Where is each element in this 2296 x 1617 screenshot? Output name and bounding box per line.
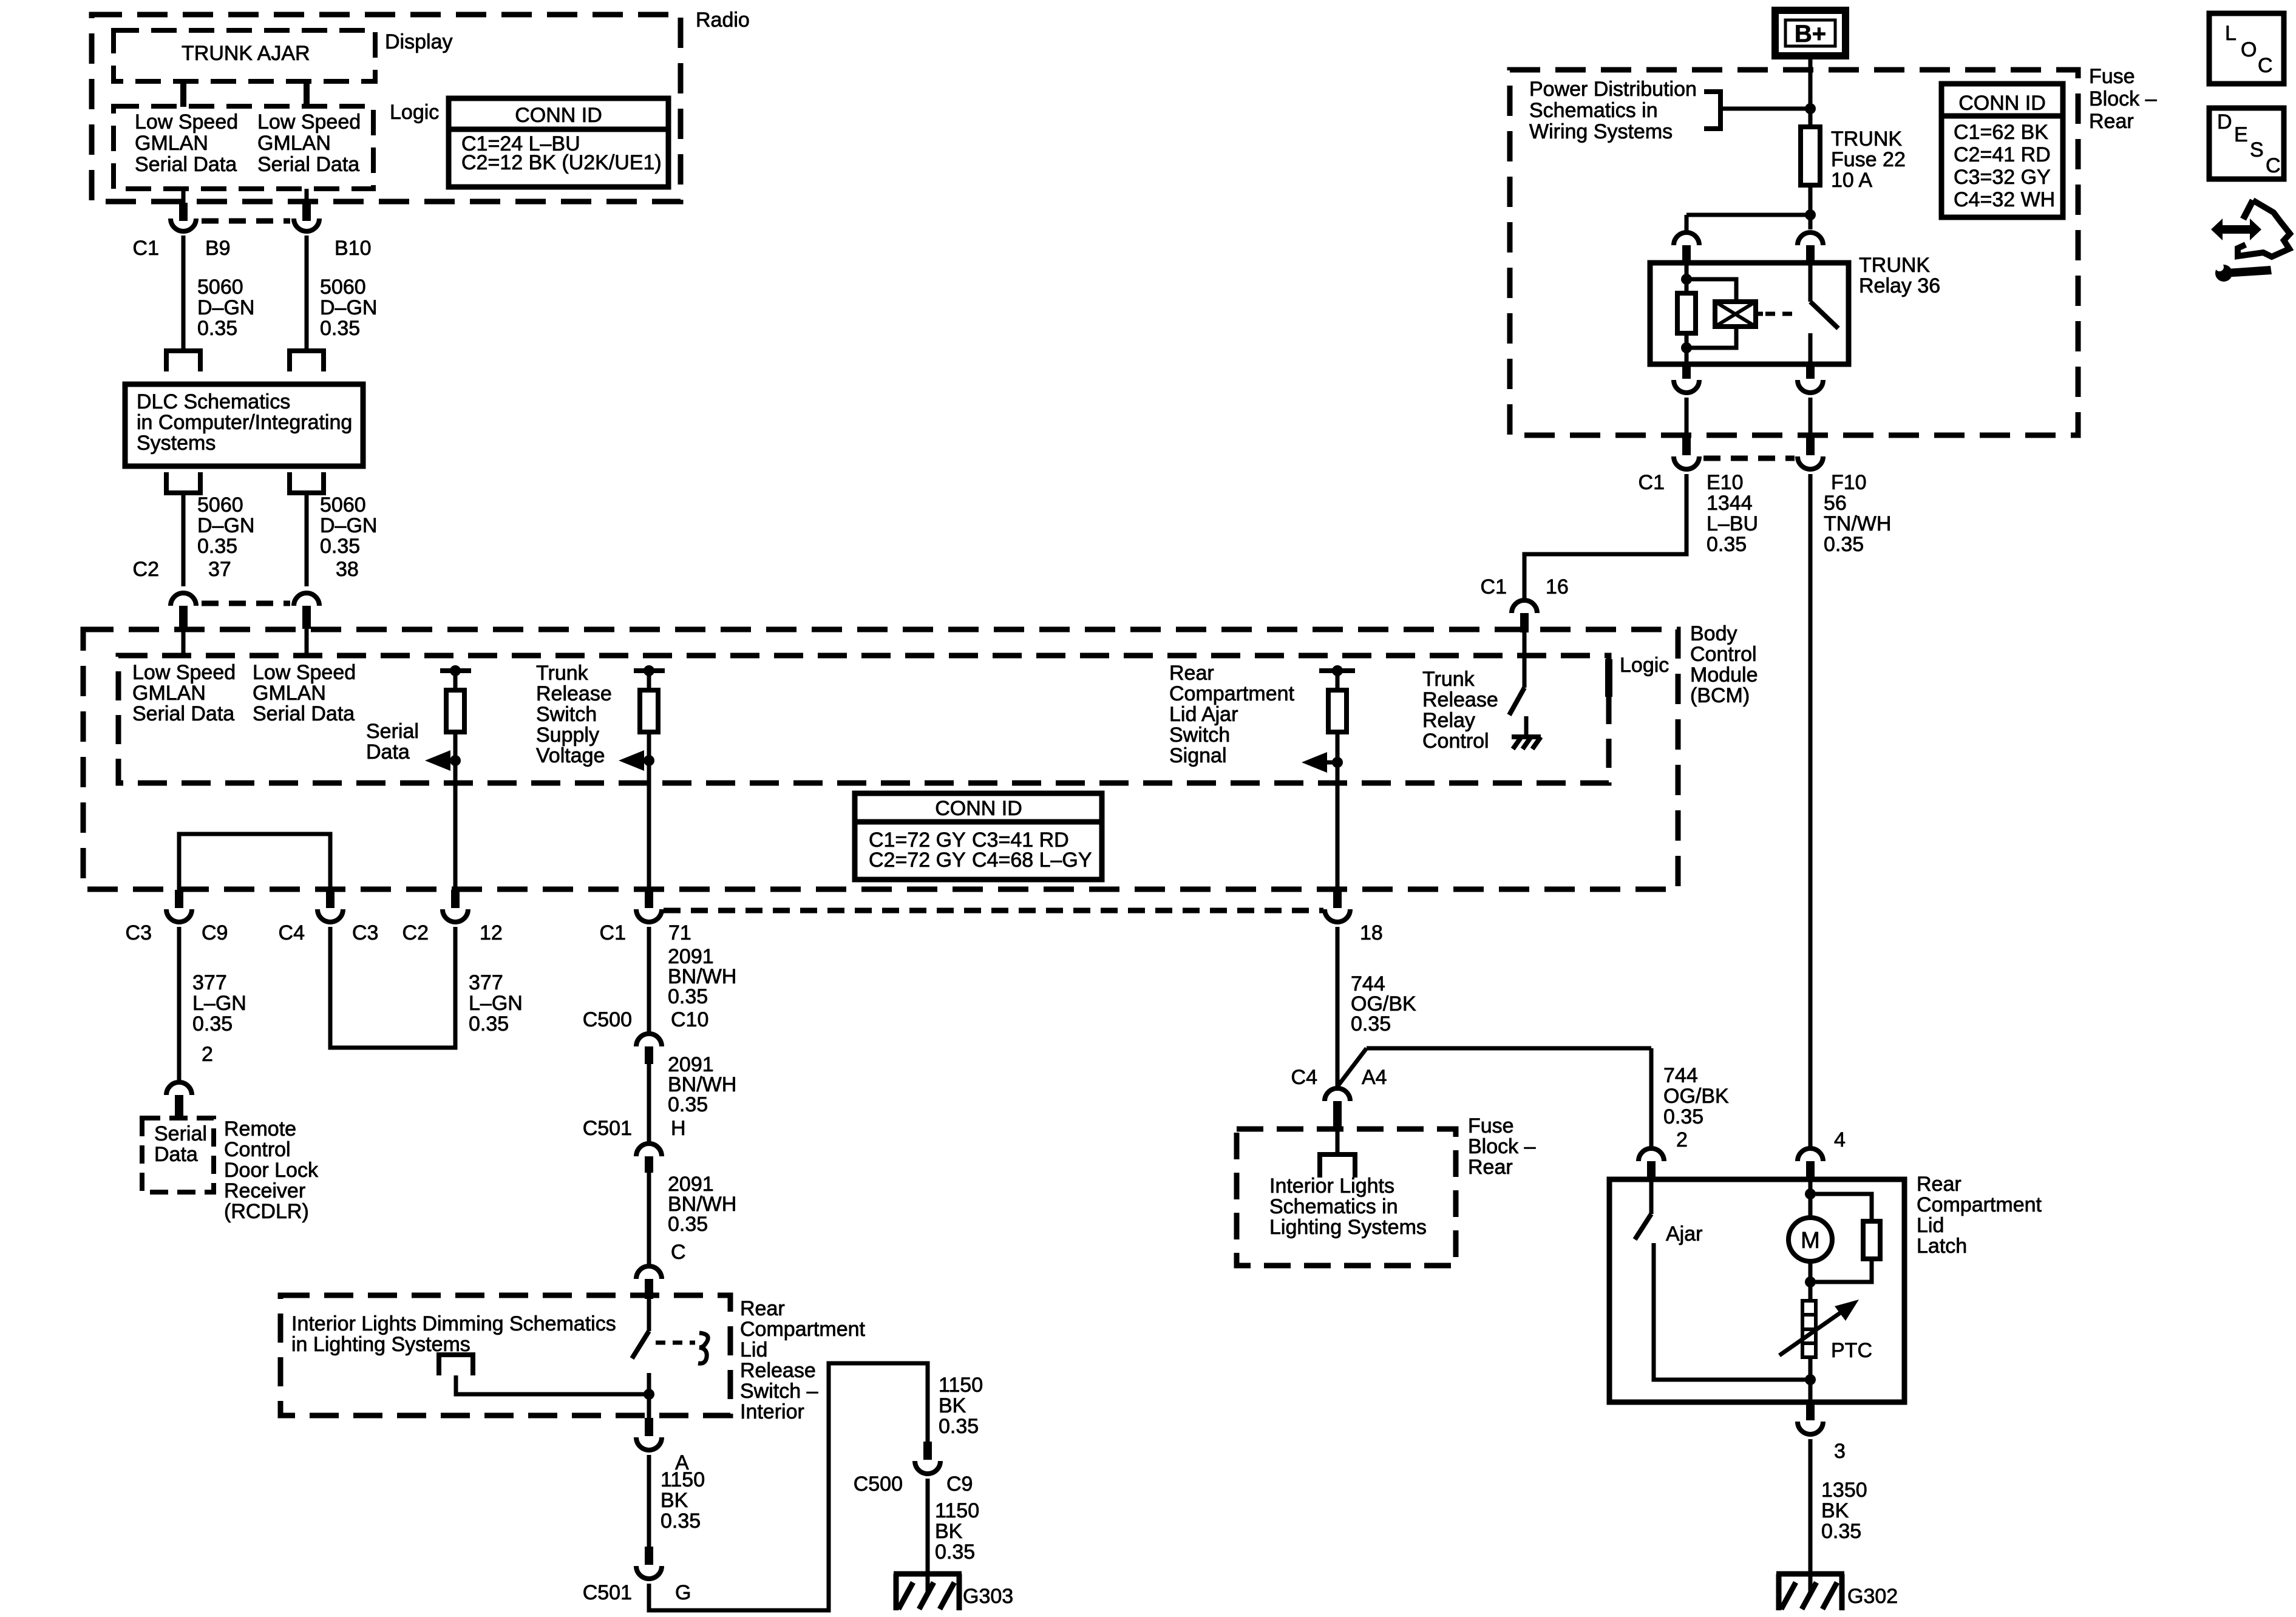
- svg-text:Relay: Relay: [1422, 709, 1475, 732]
- wire A to C501 G: [647, 1455, 651, 1547]
- svg-text:CONN ID: CONN ID: [515, 104, 602, 127]
- svg-text:Lighting Systems: Lighting Systems: [1269, 1216, 1427, 1239]
- svg-text:C9: C9: [202, 921, 228, 944]
- relay actuator dashed: [1756, 312, 1763, 316]
- switch relay contact: [1809, 263, 1813, 302]
- wire R1 bottom: [453, 732, 458, 890]
- svg-text:1150: 1150: [939, 1374, 983, 1397]
- svg-text:GMLAN: GMLAN: [253, 682, 326, 705]
- svg-text:TRUNK: TRUNK: [1859, 254, 1930, 277]
- icon arrow and wrench: [2211, 219, 2261, 240]
- svg-text:0.35: 0.35: [197, 535, 237, 558]
- wire DLC to BCM right: [305, 493, 309, 586]
- connector C1 pin 16 (BCM): [1512, 600, 1537, 613]
- terminal staple above DLC box left: [164, 348, 203, 353]
- resistor relay coil: [1677, 293, 1696, 333]
- svg-text:Block –: Block –: [2089, 87, 2157, 110]
- svg-text:Rear: Rear: [1917, 1173, 1961, 1196]
- connector C501 pin H: [636, 1144, 662, 1156]
- svg-text:C3=32 GY: C3=32 GY: [1954, 166, 2051, 189]
- svg-text:Release: Release: [740, 1359, 816, 1382]
- svg-text:C2: C2: [402, 921, 429, 944]
- svg-text:Wiring Systems: Wiring Systems: [1529, 120, 1673, 143]
- wire ajar lower: [1654, 1243, 1810, 1380]
- thermistor PTC: [1802, 1301, 1816, 1357]
- junction dot B+ node: [1805, 103, 1816, 114]
- connector pin C (release switch): [636, 1266, 662, 1279]
- svg-text:Interior Lights: Interior Lights: [1269, 1175, 1394, 1198]
- svg-text:Schematics in: Schematics in: [1269, 1195, 1398, 1218]
- svg-text:Door Lock: Door Lock: [224, 1159, 319, 1182]
- connector C1 pin B9 (radio): [182, 189, 186, 204]
- svg-text:C: C: [2258, 54, 2273, 77]
- svg-text:Logic: Logic: [390, 101, 439, 124]
- svg-text:C3: C3: [352, 921, 378, 944]
- junction dot relay feed: [1805, 209, 1816, 220]
- connector relay switch pin (bottom): [1806, 364, 1815, 379]
- svg-text:Low Speed: Low Speed: [253, 661, 356, 684]
- svg-text:Control: Control: [224, 1138, 291, 1161]
- svg-text:Power Distribution: Power Distribution: [1529, 78, 1697, 101]
- svg-text:2: 2: [202, 1043, 213, 1066]
- wire internal jumper C9-C3: [179, 834, 330, 890]
- arrow Trunk Release Switch Supply Voltage: [619, 750, 644, 771]
- connector relay coil pin (bottom): [1682, 364, 1691, 379]
- wire to box edge: [647, 1394, 651, 1418]
- svg-text:Serial: Serial: [154, 1122, 207, 1145]
- terminal staple interior lights dimming: [436, 1352, 475, 1357]
- terminal bracket power distribution: [1704, 92, 1720, 129]
- internal tie bar R1: [440, 668, 471, 673]
- svg-text:Radio: Radio: [696, 8, 750, 32]
- svg-text:PTC: PTC: [1831, 1339, 1872, 1362]
- svg-text:5060: 5060: [320, 276, 366, 299]
- resistor R3 (lid ajar switch signal): [1328, 690, 1347, 732]
- connector C1 pin B10 (radio): [305, 189, 309, 204]
- connector C3 pin C9 (BCM bottom): [175, 890, 183, 908]
- connector C1 pin 18 (BCM bottom): [1333, 890, 1342, 908]
- svg-text:CONN ID: CONN ID: [935, 797, 1022, 820]
- svg-text:GMLAN: GMLAN: [135, 132, 208, 155]
- wire R2 top: [647, 671, 651, 690]
- terminal staple above DLC box right: [287, 348, 326, 353]
- wire 71 to C500: [647, 927, 651, 1032]
- svg-text:Rear: Rear: [1468, 1156, 1513, 1179]
- switch Ajar: [1649, 1179, 1654, 1214]
- resistor latch: [1863, 1221, 1880, 1259]
- svg-text:O: O: [2241, 38, 2257, 61]
- terminal staple below DLC box left: [164, 490, 203, 495]
- connector link dashed E10-F10: [1703, 456, 1795, 461]
- svg-text:E: E: [2234, 123, 2248, 146]
- svg-text:B9: B9: [205, 237, 231, 260]
- component box Logic (dashed): [114, 106, 373, 189]
- switch actuator dashed: [656, 1341, 695, 1345]
- svg-text:in Computer/Integrating: in Computer/Integrating: [137, 411, 352, 434]
- svg-text:(BCM): (BCM): [1690, 684, 1750, 707]
- svg-text:0.35: 0.35: [192, 1012, 233, 1036]
- wire release switch lower contact: [647, 1373, 651, 1394]
- svg-text:L–BU: L–BU: [1707, 512, 1758, 535]
- svg-text:H: H: [671, 1117, 686, 1140]
- svg-text:Trunk: Trunk: [1422, 668, 1475, 691]
- svg-text:Release: Release: [1422, 688, 1498, 711]
- svg-text:GMLAN: GMLAN: [257, 132, 331, 155]
- svg-text:TN/WH: TN/WH: [1824, 512, 1891, 535]
- wire 3 to G302: [1809, 1439, 1813, 1574]
- svg-text:C9: C9: [946, 1473, 973, 1496]
- ground G303: [926, 1574, 930, 1592]
- connector C501 pin G: [645, 1547, 653, 1565]
- svg-text:G302: G302: [1847, 1585, 1898, 1608]
- component box Radio (dashed): [92, 15, 681, 202]
- svg-text:D–GN: D–GN: [197, 296, 254, 319]
- relay TRUNK Relay 36 box: [1650, 263, 1849, 364]
- svg-text:5060: 5060: [197, 276, 243, 299]
- svg-text:M: M: [1801, 1228, 1820, 1253]
- connector pin 2 (RCDLR): [166, 1082, 192, 1095]
- icon DESC box: [2209, 108, 2284, 179]
- svg-text:D: D: [2217, 110, 2232, 134]
- svg-text:L–GN: L–GN: [469, 992, 523, 1015]
- svg-text:Rear: Rear: [1169, 662, 1214, 685]
- svg-text:0.35: 0.35: [668, 1213, 708, 1236]
- svg-text:0.35: 0.35: [668, 1093, 708, 1116]
- svg-text:C1: C1: [600, 921, 626, 944]
- svg-text:Receiver: Receiver: [224, 1179, 305, 1202]
- switch rear compartment lid release: [647, 1299, 651, 1331]
- resistor R2 (trunk release switch supply): [640, 690, 658, 732]
- junction dot ajar switch signal: [1332, 757, 1343, 768]
- svg-text:Serial Data: Serial Data: [132, 702, 234, 725]
- svg-text:C501: C501: [583, 1117, 632, 1140]
- svg-text:Compartment: Compartment: [740, 1318, 866, 1341]
- svg-text:0.35: 0.35: [320, 317, 360, 340]
- junction dot R2 top: [644, 665, 654, 676]
- wire R3 top: [1336, 671, 1340, 690]
- svg-text:Rear: Rear: [2089, 110, 2134, 133]
- svg-text:0.35: 0.35: [1663, 1105, 1703, 1128]
- junction dot release switch output: [644, 1389, 654, 1400]
- svg-text:Data: Data: [154, 1143, 198, 1166]
- svg-text:OG/BK: OG/BK: [1663, 1085, 1729, 1108]
- svg-text:0.35: 0.35: [668, 985, 708, 1008]
- junction dot serial data: [450, 755, 461, 766]
- svg-text:C: C: [2266, 154, 2281, 177]
- svg-text:71: 71: [668, 921, 691, 944]
- svg-text:Compartment: Compartment: [1917, 1193, 2042, 1216]
- svg-text:3: 3: [1834, 1440, 1846, 1463]
- svg-text:C1=62 BK: C1=62 BK: [1954, 121, 2048, 144]
- component box Fuse Block - Rear (lighting, dashed): [1237, 1129, 1456, 1266]
- wire coil top: [1685, 263, 1689, 293]
- svg-text:E10: E10: [1707, 471, 1744, 494]
- svg-text:12: 12: [480, 921, 503, 944]
- wire E10 to C1-16: [1524, 474, 1686, 598]
- svg-text:L–GN: L–GN: [192, 992, 246, 1015]
- svg-text:Module: Module: [1690, 663, 1758, 686]
- svg-text:Schematics in: Schematics in: [1529, 99, 1658, 122]
- wire Display to Logic stub right: [304, 81, 310, 107]
- svg-text:Latch: Latch: [1917, 1235, 1967, 1258]
- label Logic (BCM): [1605, 659, 1612, 697]
- svg-text:B+: B+: [1795, 21, 1826, 47]
- svg-text:D–GN: D–GN: [320, 296, 377, 319]
- svg-text:D–GN: D–GN: [320, 514, 377, 537]
- connector C4 pin A4 (fuse block rear): [1325, 1088, 1350, 1101]
- svg-text:0.35: 0.35: [935, 1541, 975, 1564]
- wire R1 top: [453, 671, 458, 690]
- svg-text:Systems: Systems: [137, 432, 216, 455]
- connector pin F10: [1806, 435, 1815, 455]
- svg-text:A4: A4: [1362, 1066, 1387, 1089]
- svg-text:1344: 1344: [1707, 492, 1753, 515]
- svg-text:Serial: Serial: [366, 720, 419, 743]
- svg-text:G303: G303: [963, 1585, 1013, 1608]
- wire C10 to C501: [647, 1064, 651, 1142]
- wire F10 to latch pin 4: [1809, 474, 1813, 1147]
- svg-text:(RCDLR): (RCDLR): [224, 1200, 309, 1223]
- svg-text:0.35: 0.35: [1707, 533, 1747, 556]
- svg-text:0.35: 0.35: [1821, 1520, 1861, 1543]
- icon LOC box: [2209, 13, 2284, 84]
- svg-text:C4=32 WH: C4=32 WH: [1954, 188, 2055, 211]
- junction dot R1 top: [450, 665, 461, 676]
- svg-text:37: 37: [208, 558, 231, 581]
- component box BCM Logic (dashed): [118, 656, 1609, 783]
- svg-text:CONN ID: CONN ID: [1958, 92, 2046, 115]
- svg-text:Trunk: Trunk: [536, 662, 589, 685]
- resistor R1 (BCM serial data): [446, 690, 464, 732]
- svg-text:TRUNK: TRUNK: [1831, 127, 1902, 151]
- svg-text:Ajar: Ajar: [1666, 1222, 1702, 1246]
- svg-text:G: G: [675, 1581, 691, 1604]
- svg-text:Interior: Interior: [740, 1400, 804, 1423]
- svg-text:C1: C1: [133, 237, 159, 260]
- svg-text:1350: 1350: [1821, 1479, 1867, 1502]
- wire 18 down: [1336, 927, 1340, 1086]
- wire coil parallel bottom: [1686, 327, 1736, 348]
- arrow Serial Data: [425, 750, 450, 771]
- svg-text:377: 377: [469, 971, 503, 994]
- wire diagonal to junction: [1337, 1048, 1367, 1086]
- svg-text:C2=41 RD: C2=41 RD: [1954, 143, 2051, 166]
- svg-text:Control: Control: [1422, 730, 1489, 753]
- connector C2 pin 12 (BCM bottom): [451, 890, 460, 908]
- svg-text:Voltage: Voltage: [536, 744, 605, 767]
- svg-text:Serial Data: Serial Data: [135, 153, 237, 176]
- svg-text:Block –: Block –: [1468, 1135, 1536, 1158]
- svg-text:10 A: 10 A: [1831, 169, 1872, 192]
- svg-text:C4=68 L–GY: C4=68 L–GY: [972, 849, 1092, 872]
- svg-text:Fuse: Fuse: [1468, 1114, 1514, 1137]
- connector pin A: [645, 1418, 653, 1436]
- svg-text:0.35: 0.35: [939, 1415, 979, 1438]
- component box Serial Data (RCDLR dashed): [142, 1118, 214, 1192]
- junction dot motor bottom: [1805, 1276, 1816, 1287]
- svg-text:16: 16: [1546, 575, 1569, 598]
- svg-text:Serial Data: Serial Data: [253, 702, 355, 725]
- svg-text:Lid: Lid: [740, 1338, 767, 1361]
- connector C500 pin C9 (ground branch): [923, 1442, 932, 1460]
- connector link dashed 71-18: [664, 908, 1323, 914]
- wire R2 bottom: [647, 732, 651, 890]
- svg-text:377: 377: [192, 971, 227, 994]
- svg-text:Supply: Supply: [536, 724, 599, 747]
- svg-text:GMLAN: GMLAN: [132, 682, 206, 705]
- solenoid relay winding: [1715, 302, 1756, 327]
- table CONN ID (BCM): [855, 793, 1102, 880]
- connector relay coil pin (top): [1674, 232, 1699, 245]
- wire BCM C9 to RCDLR: [177, 927, 182, 1080]
- wire fuse to relay node: [1809, 185, 1813, 229]
- internal tie bar R2: [634, 668, 665, 673]
- svg-text:0.35: 0.35: [320, 535, 360, 558]
- wire coil parallel top: [1686, 279, 1736, 302]
- svg-text:BK: BK: [1821, 1499, 1849, 1522]
- svg-text:1150: 1150: [661, 1468, 705, 1491]
- svg-text:Switch: Switch: [536, 703, 597, 726]
- connector pin 4 (latch): [1798, 1148, 1823, 1161]
- svg-text:Fuse 22: Fuse 22: [1831, 148, 1906, 171]
- svg-text:0.35: 0.35: [661, 1510, 701, 1533]
- svg-text:DLC Schematics: DLC Schematics: [137, 390, 290, 413]
- internal tie bar R3: [1319, 668, 1355, 673]
- svg-text:C2=72 GY: C2=72 GY: [869, 849, 966, 872]
- svg-text:Lid Ajar: Lid Ajar: [1169, 703, 1238, 726]
- wire motor bottom: [1809, 1261, 1813, 1301]
- power feed B+: [1775, 10, 1846, 56]
- wire coil bottom: [1685, 333, 1689, 348]
- wire R3 bottom: [1336, 732, 1340, 890]
- svg-text:0.35: 0.35: [1351, 1012, 1391, 1036]
- wire 744 horizontal: [1367, 1046, 1651, 1051]
- wire 744 to latch pin 2: [1649, 1048, 1654, 1147]
- switch actuator symbol: [698, 1333, 708, 1363]
- wire pin4 to motor node: [1809, 1179, 1813, 1218]
- connector pin 2 (latch): [1639, 1148, 1664, 1161]
- svg-text:2: 2: [1676, 1128, 1688, 1151]
- svg-text:0.35: 0.35: [1824, 533, 1864, 556]
- svg-text:C2=12 BK (U2K/UE1): C2=12 BK (U2K/UE1): [461, 151, 662, 174]
- svg-text:Data: Data: [366, 741, 410, 764]
- junction dot latch bottom: [1805, 1374, 1816, 1385]
- svg-text:C500: C500: [583, 1008, 632, 1031]
- wire Display to Logic stub left: [180, 81, 186, 107]
- svg-text:Control: Control: [1690, 643, 1757, 666]
- svg-text:L: L: [2225, 22, 2237, 45]
- svg-text:D–GN: D–GN: [197, 514, 254, 537]
- wire switch to F10: [1809, 398, 1813, 435]
- junction dot coil bottom: [1681, 342, 1692, 353]
- wire PTC bottom: [1809, 1357, 1813, 1402]
- fuse TRUNK Fuse 22 10A: [1801, 127, 1820, 185]
- svg-text:0.35: 0.35: [469, 1012, 509, 1036]
- wire relay control from C1-16: [1523, 631, 1527, 688]
- svg-text:C3: C3: [126, 921, 152, 944]
- svg-text:Remote: Remote: [224, 1117, 296, 1141]
- table CONN ID (fuse block): [1941, 84, 2063, 217]
- component box Body Control Module BCM (dashed): [83, 629, 1678, 889]
- svg-text:0.35: 0.35: [197, 317, 237, 340]
- svg-text:C4: C4: [1291, 1066, 1317, 1089]
- svg-text:C: C: [671, 1241, 686, 1264]
- switch trunk release relay control: [1509, 688, 1524, 715]
- svg-text:5060: 5060: [320, 493, 366, 517]
- component box Fuse Block - Rear (dashed): [1510, 70, 2078, 435]
- wire node to coil branch: [1686, 213, 1810, 217]
- component box Rear Compartment Lid Latch: [1609, 1179, 1904, 1402]
- svg-text:B10: B10: [335, 237, 372, 260]
- svg-text:18: 18: [1360, 921, 1383, 944]
- wire motor parallel resistor: [1810, 1194, 1872, 1221]
- svg-text:Compartment: Compartment: [1169, 682, 1295, 705]
- connector link dashed B9-B10: [202, 219, 290, 224]
- svg-text:Low Speed: Low Speed: [132, 661, 236, 684]
- wire G to C500 riser: [649, 1363, 928, 1610]
- connector C2 pin 38 (BCM top): [294, 593, 319, 606]
- terminal staple interior lights: [1336, 1130, 1340, 1154]
- svg-text:C1: C1: [1481, 575, 1507, 598]
- connector link dashed 37-38: [202, 601, 290, 606]
- junction dot supply voltage: [644, 755, 654, 766]
- svg-text:Serial Data: Serial Data: [257, 153, 359, 176]
- svg-text:Release: Release: [536, 682, 612, 705]
- svg-text:Body: Body: [1690, 622, 1737, 645]
- wire dimming to node: [456, 1375, 649, 1394]
- svg-text:Low Speed: Low Speed: [257, 110, 361, 134]
- svg-text:C2: C2: [133, 558, 159, 581]
- component box Rear Compartment Lid Release Switch - Interior (dashed): [280, 1295, 730, 1415]
- svg-text:38: 38: [336, 558, 359, 581]
- motor M: [1788, 1218, 1832, 1261]
- svg-text:5060: 5060: [197, 493, 243, 517]
- connector C1 pin 71 (BCM bottom): [645, 890, 653, 908]
- wire B+ to fuse: [1809, 56, 1813, 127]
- connector C4 pin C3 (BCM bottom): [326, 890, 335, 908]
- svg-text:1150: 1150: [935, 1499, 979, 1522]
- svg-text:S: S: [2250, 138, 2264, 161]
- svg-text:C10: C10: [671, 1008, 708, 1031]
- wire coil to E10: [1685, 398, 1689, 435]
- wire bracket to node: [1720, 107, 1810, 111]
- terminal staple below DLC box right: [287, 490, 326, 495]
- wire H to C: [647, 1173, 651, 1264]
- svg-text:Lid: Lid: [1917, 1214, 1944, 1237]
- junction dot motor top: [1805, 1188, 1816, 1199]
- svg-text:C4: C4: [279, 921, 305, 944]
- connector relay switch pin (top): [1798, 232, 1823, 245]
- svg-text:BK: BK: [935, 1520, 963, 1543]
- wire DLC to BCM left: [182, 493, 186, 586]
- svg-text:Switch: Switch: [1169, 724, 1230, 747]
- svg-text:Signal: Signal: [1169, 744, 1227, 767]
- connector C2 pin 37 (BCM top): [171, 593, 196, 606]
- svg-text:BK: BK: [661, 1489, 688, 1512]
- table CONN ID (radio): [449, 98, 668, 187]
- svg-text:Interior Lights Dimming Schema: Interior Lights Dimming Schematics: [291, 1312, 616, 1335]
- wire relay control ground stub: [1524, 716, 1529, 736]
- svg-text:Relay 36: Relay 36: [1859, 274, 1940, 297]
- component box Display (dashed): [114, 30, 375, 81]
- junction dot R3 top: [1332, 665, 1343, 676]
- svg-text:Rear: Rear: [740, 1297, 785, 1320]
- ground (BCM relay control): [1512, 734, 1541, 739]
- connector C500 pin C10: [636, 1034, 662, 1046]
- svg-text:Logic: Logic: [1620, 654, 1669, 677]
- arrow Rear Compartment Lid Ajar Switch Signal: [1302, 752, 1327, 773]
- svg-text:Display: Display: [385, 30, 452, 53]
